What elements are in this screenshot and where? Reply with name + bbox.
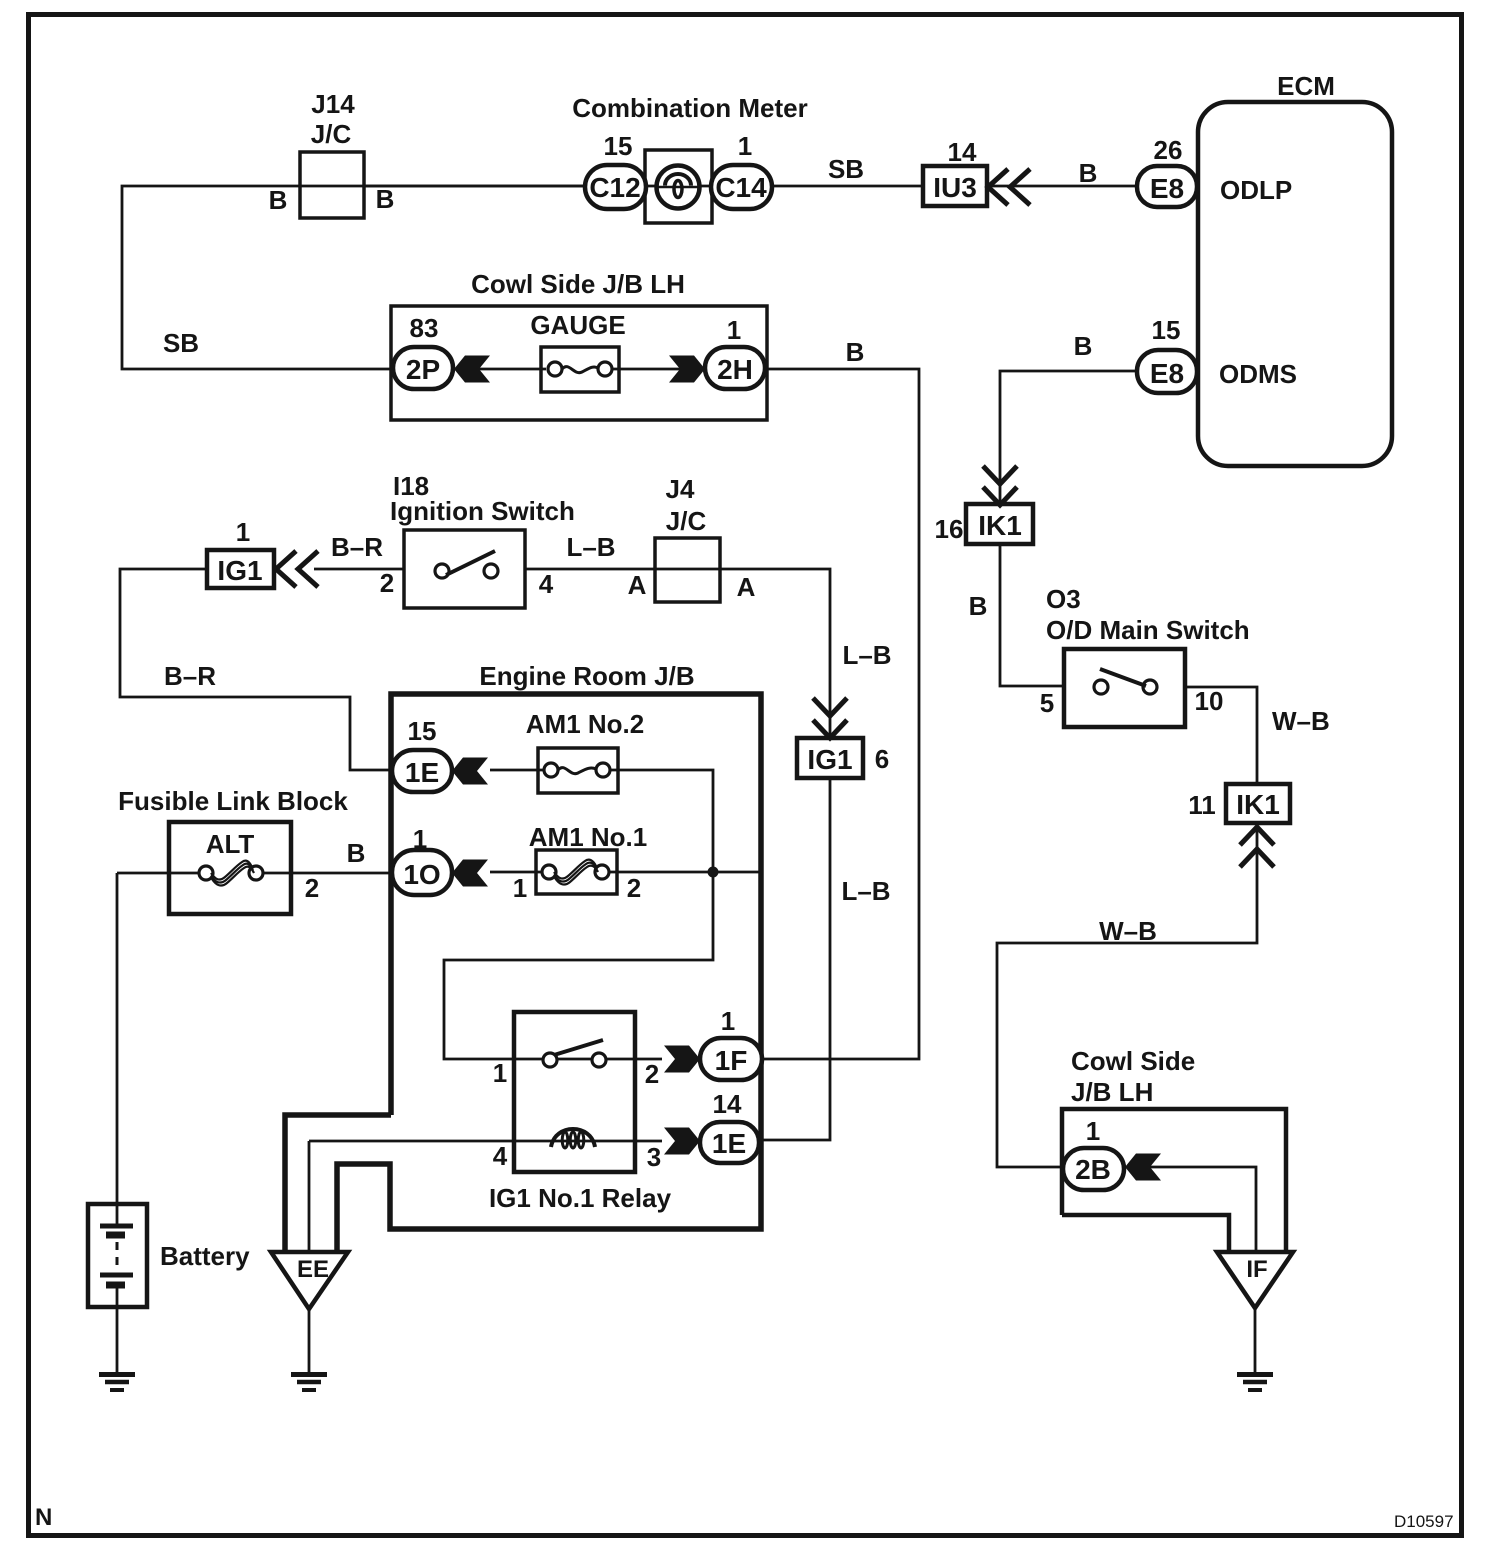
svg-text:15: 15 [604,131,633,161]
svg-text:E8: E8 [1150,358,1184,389]
svg-text:1: 1 [513,873,527,903]
svg-text:B–R: B–R [331,532,383,562]
svg-text:B: B [1079,158,1098,188]
svg-text:Cowl Side: Cowl Side [1071,1046,1195,1076]
svg-text:1: 1 [721,1006,735,1036]
svg-text:J/C: J/C [666,506,707,536]
svg-text:3: 3 [647,1142,661,1172]
svg-text:J/C: J/C [311,119,352,149]
svg-text:Battery: Battery [160,1241,250,1271]
svg-text:O3: O3 [1046,584,1081,614]
svg-text:11: 11 [1188,790,1216,820]
svg-text:5: 5 [1040,688,1054,718]
svg-text:ALT: ALT [206,829,255,859]
svg-text:D10597: D10597 [1394,1512,1454,1531]
svg-text:1F: 1F [715,1045,748,1076]
svg-text:B: B [969,591,988,621]
svg-text:B: B [1074,331,1093,361]
svg-text:1E: 1E [405,757,439,788]
svg-text:Combination Meter: Combination Meter [572,93,807,123]
svg-text:B: B [269,185,288,215]
svg-text:N: N [35,1504,52,1531]
svg-text:1E: 1E [712,1128,746,1159]
svg-text:W–B: W–B [1272,706,1330,736]
svg-text:Ignition Switch: Ignition Switch [390,496,575,526]
svg-text:B: B [347,838,366,868]
svg-text:AM1 No.2: AM1 No.2 [526,709,644,739]
svg-text:J14: J14 [311,89,355,119]
svg-text:1O: 1O [403,859,440,890]
svg-text:1: 1 [1086,1116,1100,1146]
svg-text:SB: SB [163,328,199,358]
svg-text:ECM: ECM [1277,71,1335,101]
svg-text:6: 6 [875,744,889,774]
svg-text:AM1 No.1: AM1 No.1 [529,822,647,852]
svg-text:2: 2 [627,873,641,903]
svg-text:1: 1 [493,1058,507,1088]
svg-text:O/D Main Switch: O/D Main Switch [1046,615,1250,645]
svg-text:J/B LH: J/B LH [1071,1077,1153,1107]
svg-text:IG1: IG1 [807,744,852,775]
svg-text:L–B: L–B [566,532,615,562]
svg-text:IK1: IK1 [978,510,1022,541]
svg-text:1: 1 [236,517,250,547]
svg-text:15: 15 [1152,315,1181,345]
svg-text:A: A [628,570,647,600]
svg-text:SB: SB [828,154,864,184]
svg-text:E8: E8 [1150,173,1184,204]
svg-text:L–B: L–B [842,640,891,670]
svg-text:IG1: IG1 [217,555,262,586]
svg-text:1: 1 [727,315,741,345]
svg-text:C12: C12 [589,172,640,203]
svg-text:2: 2 [380,568,394,598]
svg-text:26: 26 [1154,135,1183,165]
svg-text:IG1 No.1 Relay: IG1 No.1 Relay [489,1183,672,1213]
svg-text:B: B [846,337,865,367]
svg-text:83: 83 [410,313,439,343]
svg-text:4: 4 [539,569,554,599]
svg-text:IK1: IK1 [1236,789,1280,820]
svg-text:IU3: IU3 [933,172,977,203]
svg-text:4: 4 [493,1141,508,1171]
svg-text:1: 1 [413,824,427,854]
svg-text:B–R: B–R [164,661,216,691]
svg-text:B: B [376,184,395,214]
svg-text:15: 15 [408,716,437,746]
svg-text:10: 10 [1195,686,1224,716]
svg-text:2B: 2B [1075,1154,1111,1185]
svg-text:2: 2 [305,873,319,903]
svg-text:A: A [737,572,756,602]
svg-text:C14: C14 [715,172,767,203]
svg-text:2P: 2P [406,354,440,385]
svg-text:1: 1 [738,131,752,161]
svg-text:EE: EE [297,1256,329,1283]
svg-text:GAUGE: GAUGE [530,310,625,340]
svg-text:J4: J4 [666,474,695,504]
svg-text:ODMS: ODMS [1219,359,1297,389]
svg-text:Cowl Side J/B LH: Cowl Side J/B LH [471,269,685,299]
svg-text:2H: 2H [717,354,753,385]
svg-text:Fusible Link Block: Fusible Link Block [118,786,348,816]
svg-text:Engine Room J/B: Engine Room J/B [479,661,694,691]
svg-text:L–B: L–B [841,876,890,906]
svg-text:ODLP: ODLP [1220,175,1292,205]
svg-text:IF: IF [1246,1256,1267,1283]
svg-text:W–B: W–B [1099,916,1157,946]
svg-text:14: 14 [948,137,977,167]
svg-text:2: 2 [645,1059,659,1089]
svg-text:14: 14 [713,1089,742,1119]
svg-text:16: 16 [935,514,964,544]
